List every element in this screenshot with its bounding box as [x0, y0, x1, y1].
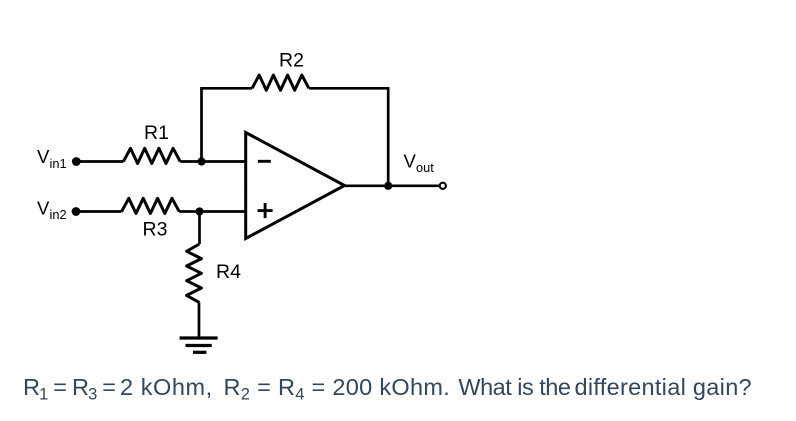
wire Vin1 to R1 [76, 160, 123, 163]
svg-text:R2 = R4 = 200 kOhm.: R2 = R4 = 200 kOhm. [224, 374, 451, 404]
svg-text:differential gain?: differential gain? [575, 374, 752, 400]
node B (non-inverting input junction) [195, 207, 203, 215]
terminal Vin2 [72, 207, 81, 216]
resistor R1 [123, 148, 180, 163]
wire node B down to R4 [198, 212, 201, 245]
node output junction [384, 182, 392, 190]
wire R3 to op-amp non-inverting input [179, 210, 246, 213]
resistor R2 [252, 75, 309, 90]
svg-text:R2: R2 [279, 50, 304, 72]
op-amp U1 [246, 133, 345, 239]
svg-text:in2: in2 [50, 207, 67, 222]
label Vout [404, 151, 435, 176]
ground [180, 338, 218, 352]
terminal Vin1 [72, 157, 81, 166]
svg-text:R4: R4 [216, 261, 241, 283]
node A (inverting input junction) [197, 157, 205, 165]
svg-text:R3: R3 [143, 219, 168, 241]
svg-text:R1: R1 [144, 122, 169, 144]
label Vin1 [37, 146, 67, 171]
wire R2 to right vertical [309, 87, 390, 90]
svg-text:What is the: What is the [458, 374, 570, 400]
svg-text:out: out [416, 160, 434, 175]
resistor R3 [122, 198, 180, 213]
terminal Vout open circle [440, 183, 446, 189]
svg-text:V: V [37, 146, 50, 167]
resistor R4 [187, 244, 202, 303]
wire top left to R2 [200, 87, 252, 90]
svg-text:in1: in1 [50, 156, 67, 171]
wire R1 to op-amp inverting input [180, 160, 246, 163]
wire R4 to ground [198, 303, 201, 338]
wire node A up to feedback [200, 88, 203, 161]
label Vin2 [37, 198, 67, 223]
wire op-amp output to terminal [345, 184, 440, 187]
question text [23, 374, 752, 404]
op-amp inverting pin minus sign [258, 160, 271, 163]
op-amp non-inverting pin plus sign [258, 209, 273, 212]
svg-text:V: V [404, 151, 417, 172]
wire feedback right vertical down [387, 88, 390, 186]
wire Vin2 to R3 [76, 210, 122, 213]
svg-text:V: V [37, 198, 50, 219]
